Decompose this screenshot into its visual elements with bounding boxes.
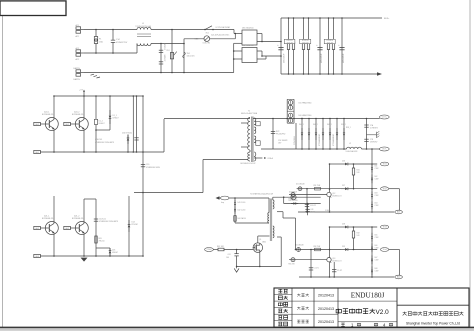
wire bbox=[329, 227, 331, 258]
svg-text:PWM: PWM bbox=[207, 249, 212, 251]
transistor 4Q1_2 bbox=[83, 199, 85, 222]
resistor R15 bbox=[328, 18, 330, 43]
svg-text:D27: D27 bbox=[342, 185, 345, 187]
svg-text:7W-150: 7W-150 bbox=[99, 241, 105, 243]
wire block2 rail bbox=[299, 276, 394, 278]
svg-text:4.7NF/2KV: 4.7NF/2KV bbox=[370, 127, 379, 129]
svg-text:STPS40SM120C: STPS40SM120C bbox=[333, 133, 335, 146]
svg-text:D45 1N4148: D45 1N4148 bbox=[295, 244, 304, 246]
capacitor C43 bbox=[307, 204, 309, 216]
terminal PWM bbox=[205, 248, 214, 252]
wire bbox=[295, 218, 297, 250]
svg-text:+VT: +VT bbox=[79, 89, 84, 91]
bottom gray strip bbox=[0, 329, 474, 331]
svg-text:D68: D68 bbox=[375, 268, 378, 270]
page right edge bbox=[469, 0, 471, 327]
title page row bbox=[341, 322, 345, 324]
svg-text:470NF/630V 630V: 470NF/630V 630V bbox=[146, 167, 161, 169]
rectifier tap COM-A bbox=[254, 157, 262, 159]
zener D66 bbox=[371, 243, 373, 246]
pin box DA2 bbox=[256, 141, 260, 146]
wire bbox=[296, 249, 323, 251]
svg-text:RL1: RL1 bbox=[206, 32, 209, 34]
diode pack D06A bbox=[288, 113, 292, 117]
terminal OUT- bbox=[367, 148, 380, 150]
svg-text:2SD882T-LTJ: 2SD882T-LTJ bbox=[332, 261, 341, 263]
wire bbox=[234, 58, 242, 60]
wire bbox=[84, 72, 234, 74]
capacitor C13 on bus bbox=[319, 18, 321, 74]
wire t1 out bbox=[253, 117, 255, 120]
wire bbox=[151, 29, 234, 31]
chassis ground bbox=[91, 74, 95, 75]
diode D14 bbox=[128, 196, 130, 256]
diode D05 bbox=[109, 248, 111, 256]
title block row lines name col bbox=[292, 300, 338, 302]
node FB bbox=[216, 196, 220, 200]
bridge rectifier DB2 bbox=[242, 48, 257, 63]
title block columns bbox=[291, 288, 293, 327]
wire bus- rail bbox=[281, 73, 377, 75]
wire bbox=[257, 41, 281, 43]
svg-text:C2 471: C2 471 bbox=[337, 270, 342, 272]
svg-text:L2: L2 bbox=[349, 143, 351, 145]
wire bbox=[84, 29, 137, 31]
connector AC1 bbox=[76, 27, 81, 30]
diode D10 bbox=[291, 195, 296, 200]
wire bbox=[234, 42, 242, 44]
wire t1 tap a bbox=[241, 122, 248, 124]
resistor R16 bbox=[333, 18, 335, 43]
svg-text:R53 750R: R53 750R bbox=[314, 246, 322, 248]
wire bbox=[253, 247, 255, 249]
svg-text:R51 750R: R51 750R bbox=[314, 185, 322, 187]
resistor R53 bbox=[315, 248, 321, 251]
relay RL1 bbox=[205, 26, 212, 30]
svg-text:4Q4_2: 4Q4_2 bbox=[74, 111, 79, 113]
wire bbox=[203, 159, 248, 161]
zener D62 bbox=[371, 174, 373, 177]
wire ge rail bbox=[40, 151, 164, 153]
svg-text:ENDU180J: ENDU180J bbox=[351, 291, 385, 299]
svg-text:BUS+: BUS+ bbox=[384, 18, 390, 20]
title block row lines center bbox=[338, 300, 397, 302]
wire bbox=[84, 198, 96, 200]
wire t1 tap b bbox=[241, 146, 248, 148]
svg-text:D04 BYV26C: D04 BYV26C bbox=[122, 132, 133, 134]
svg-text:D07_1: D07_1 bbox=[299, 124, 304, 126]
wire bbox=[262, 55, 281, 57]
zener D42 bbox=[234, 207, 236, 210]
diode D04 bbox=[127, 135, 129, 153]
diode D44 bbox=[291, 203, 293, 205]
svg-text:R13/R14: R13/R14 bbox=[302, 40, 308, 42]
optocoupler Q21 bbox=[291, 258, 295, 262]
capacitor CY1 bbox=[160, 44, 162, 73]
diode D27 bbox=[341, 188, 345, 190]
node GE2 a bbox=[34, 122, 41, 125]
svg-text:472/250V: 472/250V bbox=[165, 42, 167, 50]
wire bbox=[132, 96, 134, 152]
svg-text:AC1: AC1 bbox=[76, 35, 80, 38]
wire bbox=[96, 247, 110, 249]
wire bbox=[183, 39, 185, 44]
wire return 1 bbox=[389, 188, 400, 190]
wire bbox=[229, 197, 269, 199]
svg-text:104: 104 bbox=[226, 257, 229, 259]
svg-text:UF4007: UF4007 bbox=[113, 118, 119, 120]
svg-text:DB2 GBJ2510: DB2 GBJ2510 bbox=[242, 45, 254, 47]
svg-text:D44 1N4148: D44 1N4148 bbox=[289, 200, 298, 202]
svg-text:T2 DR(EE19)-LN-A4-NH-2.5W: T2 DR(EE19)-LN-A4-NH-2.5W bbox=[250, 192, 273, 195]
diode pack D05A bbox=[286, 99, 288, 123]
svg-text:D08_1: D08_1 bbox=[313, 124, 318, 126]
wire bus+ rail bbox=[281, 17, 382, 19]
svg-text:DB1 GBJ2510: DB1 GBJ2510 bbox=[242, 28, 254, 30]
label CON-FAN bbox=[295, 123, 297, 149]
svg-text:AC1: AC1 bbox=[76, 24, 80, 27]
transistor 4Q4_1 bbox=[53, 96, 55, 118]
ground bbox=[81, 258, 88, 262]
fuse F1 bbox=[95, 30, 97, 37]
svg-text:D26: D26 bbox=[342, 160, 345, 162]
pin box DA1 bbox=[256, 122, 260, 126]
svg-text:R05: R05 bbox=[99, 238, 102, 240]
svg-text:R32: R32 bbox=[357, 233, 360, 235]
thermistor TH1 bbox=[183, 44, 185, 73]
svg-text:D62: D62 bbox=[375, 176, 378, 178]
node GE2 c bbox=[34, 226, 41, 229]
svg-text:450K-2W: 450K-2W bbox=[302, 42, 309, 44]
wire long vertical bbox=[142, 96, 144, 256]
svg-text:V2.0: V2.0 bbox=[376, 309, 390, 316]
svg-text:C43: C43 bbox=[310, 209, 313, 211]
svg-text:20120413: 20120413 bbox=[318, 307, 334, 311]
diode D1_1 bbox=[109, 96, 111, 130]
wire bbox=[329, 164, 331, 192]
svg-text:RV1: RV1 bbox=[167, 50, 170, 52]
svg-text:20120413: 20120413 bbox=[318, 320, 334, 324]
wire bbox=[234, 34, 236, 39]
svg-text:Q1: Q1 bbox=[259, 239, 261, 241]
diode D07_1 bbox=[301, 119, 303, 150]
svg-text:20120413: 20120413 bbox=[318, 294, 334, 298]
resistor R12 bbox=[293, 18, 295, 43]
svg-text:D63: D63 bbox=[375, 193, 378, 195]
svg-text:B02-EE65-LN-10P: B02-EE65-LN-10P bbox=[241, 163, 257, 165]
resistor R44 bbox=[234, 216, 236, 222]
transistor Q12 bbox=[327, 192, 331, 196]
node +VT bbox=[83, 91, 85, 96]
svg-text:470NF/630V 250V-GBPF: 470NF/630V 250V-GBPF bbox=[99, 221, 118, 223]
zener D61 bbox=[371, 149, 373, 212]
svg-text:B02: B02 bbox=[397, 277, 400, 279]
optocoupler PC1 bbox=[291, 193, 295, 197]
svg-text:D29: D29 bbox=[342, 246, 345, 248]
capacitor C06 bbox=[136, 96, 138, 152]
wire bbox=[259, 252, 261, 266]
svg-text:10D-151K: 10D-151K bbox=[187, 56, 196, 58]
svg-text:Q12: Q12 bbox=[332, 193, 335, 195]
capacitor C53 bbox=[306, 189, 308, 212]
svg-text:D28: D28 bbox=[342, 223, 345, 225]
svg-text:4Q1_1: 4Q1_1 bbox=[44, 215, 49, 217]
svg-text:C1 471: C1 471 bbox=[314, 267, 319, 269]
wire bbox=[235, 222, 269, 224]
page bottom edge bbox=[0, 326, 474, 328]
bridge rectifier DB1 bbox=[242, 30, 257, 45]
label box bus 1 bbox=[284, 39, 295, 43]
title block row line right bbox=[397, 304, 469, 306]
svg-text:2N60: 2N60 bbox=[262, 242, 266, 244]
resistor R51 bbox=[315, 187, 321, 190]
zener D65 bbox=[371, 227, 373, 277]
varistor RV1 bbox=[171, 30, 173, 73]
svg-text:CON-FAN1: CON-FAN1 bbox=[293, 136, 296, 145]
wire t2 bottom tap bbox=[277, 236, 281, 238]
svg-text:R31: R31 bbox=[357, 170, 360, 172]
svg-text:D61: D61 bbox=[375, 165, 378, 167]
title block names bbox=[297, 294, 300, 296]
title block labels bbox=[278, 288, 282, 290]
terminal B02 bbox=[395, 275, 403, 279]
svg-text:400V/470UF: 400V/470UF bbox=[343, 54, 345, 63]
svg-text:2SD882T-LTJ: 2SD882T-LTJ bbox=[332, 195, 341, 197]
svg-text:TIG2: TIG2 bbox=[382, 188, 386, 190]
svg-text:472/250V: 472/250V bbox=[165, 53, 167, 61]
svg-text:PR-450/FS2: PR-450/FS2 bbox=[276, 134, 285, 136]
diode D28 bbox=[330, 226, 342, 228]
svg-text:OUT+: OUT+ bbox=[382, 117, 388, 119]
thermistor TH2 bbox=[204, 36, 210, 42]
company name cn bbox=[403, 312, 407, 314]
wire base 2 bbox=[289, 259, 327, 261]
ground arrow bbox=[234, 268, 239, 272]
svg-text:COM-A: COM-A bbox=[267, 157, 273, 160]
svg-text:B01: B01 bbox=[397, 212, 400, 214]
svg-text:D1_2: D1_2 bbox=[99, 121, 103, 123]
svg-text:BCR30GM-12L: BCR30GM-12L bbox=[72, 218, 84, 220]
wire return 2 bbox=[389, 249, 400, 251]
svg-text:D64: D64 bbox=[375, 203, 378, 205]
title block row lines label col bbox=[274, 294, 292, 296]
capacitor CY2 bbox=[159, 61, 163, 63]
wire secondary return rail bbox=[261, 148, 347, 150]
wire bbox=[96, 129, 110, 131]
mosfet Q31 bbox=[257, 236, 259, 243]
wire bbox=[233, 30, 235, 34]
svg-text:D1_1: D1_1 bbox=[113, 115, 117, 117]
wire secondary rail bbox=[253, 118, 366, 120]
svg-text:OUT-: OUT- bbox=[382, 149, 387, 151]
wire block1 rail bbox=[298, 211, 394, 213]
resistor R14 bbox=[308, 18, 310, 43]
svg-text:Shanghai Inverter Top Power Ch: Shanghai Inverter Top Power Ch.,Ltd bbox=[406, 322, 460, 326]
title schematic name bbox=[336, 309, 341, 312]
capacitor C10 bbox=[94, 218, 98, 220]
zener D64 bbox=[371, 201, 373, 204]
wire aux1 bbox=[272, 197, 274, 200]
svg-text:D51 1N4148: D51 1N4148 bbox=[296, 183, 305, 185]
svg-text:EE65-LV-A4-PT46A: EE65-LV-A4-PT46A bbox=[241, 112, 258, 115]
svg-text:C53 472: C53 472 bbox=[310, 205, 316, 207]
chassis ground out bbox=[367, 134, 377, 136]
svg-text:BYV26C: BYV26C bbox=[132, 224, 139, 226]
zener D68 bbox=[371, 266, 373, 269]
svg-text:D66: D66 bbox=[375, 245, 378, 247]
wire bbox=[234, 50, 242, 52]
wire bus left bbox=[280, 18, 282, 74]
zener D67 bbox=[371, 255, 373, 258]
capacitor C61b bbox=[310, 250, 312, 278]
svg-text:D42 C-180: D42 C-180 bbox=[238, 209, 246, 211]
capacitor C61 bbox=[236, 249, 238, 251]
svg-text:BCR30GM-12L: BCR30GM-12L bbox=[72, 114, 84, 116]
svg-text:450K-2W: 450K-2W bbox=[286, 42, 293, 44]
svg-text:UF4007: UF4007 bbox=[99, 123, 105, 125]
resistor R31 bbox=[353, 164, 355, 168]
connector EARTH bbox=[76, 70, 81, 73]
label box bus 2 bbox=[300, 39, 311, 43]
svg-text:470UF: 470UF bbox=[310, 212, 315, 214]
resistor R05 bbox=[95, 236, 97, 243]
svg-text:4Q1_2: 4Q1_2 bbox=[74, 215, 79, 217]
wire bbox=[84, 52, 137, 54]
resistor R61 bbox=[217, 249, 219, 251]
svg-text:4Q4_1: 4Q4_1 bbox=[44, 111, 49, 113]
svg-text:D09_1: D09_1 bbox=[327, 124, 332, 126]
svg-text:TIG1: TIG1 bbox=[382, 164, 386, 166]
capacitor C31 bbox=[364, 138, 368, 140]
svg-text:R57 25R: R57 25R bbox=[289, 264, 296, 266]
page left edge bbox=[2, 16, 4, 327]
svg-text:CON-TH2: CON-TH2 bbox=[203, 43, 211, 45]
svg-text:BCR30GM-12L: BCR30GM-12L bbox=[42, 114, 54, 116]
diode D09_2 bbox=[336, 119, 338, 150]
svg-text:STPS40SM120C: STPS40SM120C bbox=[319, 133, 321, 146]
zener D63 bbox=[371, 191, 373, 194]
capacitor C12 on bus bbox=[278, 47, 283, 49]
svg-text:Q13: Q13 bbox=[332, 258, 335, 260]
svg-text:D43 C-180: D43 C-180 bbox=[238, 202, 246, 204]
node GE2 d bbox=[64, 226, 71, 229]
capacitor C62b bbox=[333, 262, 335, 277]
svg-text:R61 10R: R61 10R bbox=[217, 246, 224, 248]
diode D51 bbox=[298, 187, 302, 191]
node GE3 bbox=[34, 254, 41, 257]
terminal TIG4 bbox=[381, 248, 389, 252]
label box bus 3 bbox=[324, 39, 335, 43]
diode D08_1 bbox=[315, 119, 317, 150]
wire bbox=[151, 43, 184, 45]
svg-text:470NF/630V 250V-GBPF: 470NF/630V 250V-GBPF bbox=[95, 142, 114, 144]
wire bbox=[163, 119, 165, 152]
wire bbox=[366, 119, 368, 150]
diode D1_2 bbox=[95, 96, 97, 119]
wire vt rail bbox=[54, 95, 143, 97]
diode D26 bbox=[330, 163, 342, 165]
wire bbox=[164, 118, 250, 120]
resistor R13 bbox=[303, 18, 305, 43]
svg-text:D10_1: D10_1 bbox=[341, 124, 346, 126]
svg-text:R11/R12: R11/R12 bbox=[287, 40, 293, 42]
node GE2 b bbox=[64, 122, 71, 125]
diode D29 bbox=[322, 249, 341, 251]
connector AC2 bbox=[76, 50, 81, 53]
diode D08_2 bbox=[322, 119, 324, 150]
svg-text:D10 FR107: D10 FR107 bbox=[289, 192, 297, 194]
diode D10_1 bbox=[343, 119, 345, 150]
diode D07_2 bbox=[308, 119, 310, 150]
node BUS- bbox=[377, 72, 382, 76]
title block outer bbox=[274, 288, 469, 327]
svg-text:UF4007: UF4007 bbox=[112, 252, 118, 254]
terminal TIG3 bbox=[381, 225, 389, 229]
wire bbox=[297, 188, 341, 190]
resistor R11 bbox=[288, 18, 290, 43]
svg-text:EARTH: EARTH bbox=[74, 78, 81, 81]
svg-text:freq: freq bbox=[221, 201, 224, 204]
svg-text:474NF/275V: 474NF/275V bbox=[116, 42, 128, 44]
svg-text:D67: D67 bbox=[375, 257, 378, 259]
diode D09_1 bbox=[329, 119, 331, 150]
capacitor C14 bbox=[112, 30, 114, 41]
svg-text:BCR30GM-12L: BCR30GM-12L bbox=[42, 218, 54, 220]
svg-text:D06 HFA15TB60: D06 HFA15TB60 bbox=[299, 114, 312, 117]
transistor Q13 bbox=[327, 258, 331, 262]
wire t2 tap bbox=[277, 211, 283, 213]
diode D43 bbox=[234, 198, 236, 223]
svg-text:EARTH: EARTH bbox=[74, 67, 81, 70]
wire aux2 bbox=[283, 197, 285, 203]
svg-text:C7B: C7B bbox=[370, 139, 373, 141]
wire bbox=[134, 192, 203, 194]
svg-text:400V/470UF: 400V/470UF bbox=[284, 54, 286, 63]
terminal TIG1 bbox=[381, 162, 389, 166]
transistor 4Q1_1 bbox=[53, 196, 55, 222]
svg-text:TIG3: TIG3 bbox=[382, 227, 386, 229]
inductor L2 bbox=[347, 147, 362, 149]
svg-text:AC2: AC2 bbox=[76, 47, 80, 50]
capacitor C30 bbox=[364, 124, 368, 126]
svg-text:C10/C11: C10/C11 bbox=[99, 219, 106, 221]
capacitor C22 bbox=[272, 119, 274, 150]
svg-text:400V/470UF: 400V/470UF bbox=[321, 54, 323, 63]
wire ge rail 2 bbox=[40, 255, 143, 257]
svg-text:D65: D65 bbox=[375, 234, 378, 236]
svg-text:450K-2W: 450K-2W bbox=[327, 42, 334, 44]
wire bbox=[257, 58, 266, 60]
node GE1 bbox=[34, 150, 41, 153]
svg-text:TIG4: TIG4 bbox=[382, 249, 386, 251]
svg-text:47NF/2KV: 47NF/2KV bbox=[370, 142, 378, 144]
svg-text:R58_1: R58_1 bbox=[346, 127, 351, 129]
svg-text:D05 HFA15TB60: D05 HFA15TB60 bbox=[299, 101, 312, 104]
svg-text:AC2: AC2 bbox=[76, 58, 80, 61]
svg-text:R15/R16: R15/R16 bbox=[327, 40, 333, 42]
capacitor C14B on bus bbox=[341, 18, 343, 74]
terminal TIG2 bbox=[381, 187, 389, 191]
wire base bbox=[289, 194, 327, 196]
capacitor C20 bbox=[141, 164, 145, 166]
diode D45 bbox=[297, 248, 301, 252]
transistor 4Q4_2 bbox=[83, 96, 85, 118]
wire bbox=[202, 160, 204, 193]
terminal OUT+ bbox=[367, 118, 380, 120]
top-left revision box bbox=[0, 1, 66, 16]
terminal B01 bbox=[395, 210, 403, 214]
resistor R32 bbox=[353, 227, 355, 231]
